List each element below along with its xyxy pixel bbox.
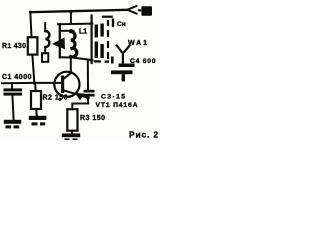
svg-text:Рис. 2: Рис. 2	[129, 130, 158, 140]
inductor L1 top stub	[60, 30, 74, 32]
ground under R2	[29, 116, 47, 126]
wire tank top	[58, 23, 92, 26]
transistor VT1 circle	[54, 72, 79, 97]
wire rail drop to tank	[70, 11, 72, 24]
svg-text:L1: L1	[79, 29, 87, 36]
svg-text:WA1: WA1	[128, 40, 147, 47]
variable capacitor section column (left of Cн)	[42, 23, 49, 62]
wire R3 to ground	[71, 131, 73, 134]
ground under C1	[4, 120, 21, 129]
arrow pointing at winding	[52, 37, 65, 49]
capacitor C1	[4, 88, 23, 95]
transistor VT1 collector lead	[64, 58, 71, 79]
node mark at transistor bottom	[58, 98, 61, 101]
resistor R3	[67, 109, 77, 131]
wire tank bottom to C3	[87, 60, 89, 90]
ground under R3	[62, 133, 80, 140]
wire top supply rail	[30, 10, 127, 12]
wire C3 to emitter junction and R3	[72, 97, 88, 110]
resistor R1	[28, 37, 38, 54]
wire base line down-left branch to C1	[11, 83, 13, 88]
svg-text:C3·15: C3·15	[101, 93, 125, 100]
inductor L1 winding	[71, 32, 77, 57]
svg-text:C4 600: C4 600	[130, 58, 156, 65]
capacitor C3	[84, 90, 95, 97]
wire from rail corner down to R1	[30, 12, 31, 38]
capacitor Cн left line	[90, 16, 92, 64]
capacitor Cн dashed screen right side	[94, 16, 114, 64]
supply arrow -9V connector	[127, 6, 152, 16]
svg-text:R3 150: R3 150	[80, 115, 105, 122]
svg-text:VT1 П416А: VT1 П416А	[96, 102, 138, 109]
svg-text:R1 430: R1 430	[2, 43, 26, 50]
transistor VT1 base bar	[61, 76, 64, 94]
wire tank bottom	[60, 57, 93, 60]
wire junction to R2	[34, 83, 36, 91]
svg-text:Сн: Сн	[117, 21, 126, 28]
node L1 top	[69, 29, 72, 32]
transistor VT1 emitter lead	[64, 91, 88, 98]
wire C1 to ground	[12, 96, 13, 121]
inductor L1 axis line	[59, 24, 61, 57]
wire R2 to ground	[35, 109, 38, 116]
antenna WA1	[117, 46, 130, 65]
wire base line	[2, 82, 63, 84]
transistor VT1 emitter arrow	[75, 93, 85, 100]
node on rail	[69, 10, 72, 13]
wire R1 bottom to base junction	[32, 55, 34, 83]
capacitor C4	[111, 64, 135, 82]
node base junction	[33, 81, 36, 84]
svg-text:C1 4000: C1 4000	[2, 74, 32, 81]
capacitor Cн plates	[95, 24, 104, 59]
resistor R2	[31, 91, 41, 109]
node emitter junction	[86, 96, 89, 99]
